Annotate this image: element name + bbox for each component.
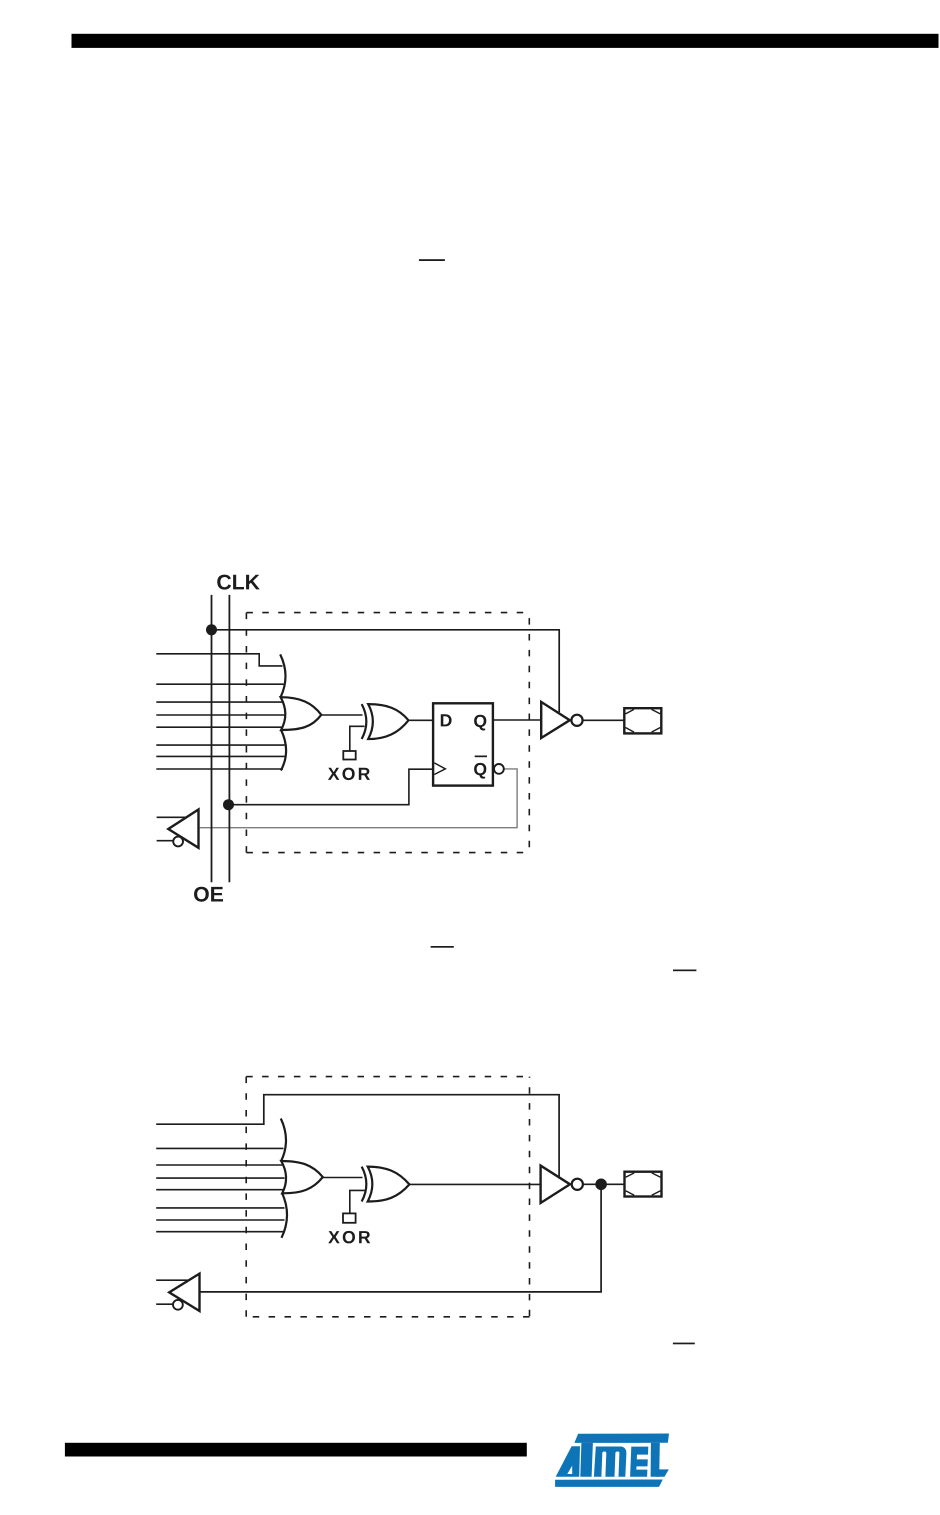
wire product term 8 bbox=[156, 1231, 283, 1233]
OR gate G2 body bbox=[281, 1161, 323, 1193]
macrocell dashed boundary box 1 bbox=[246, 613, 529, 853]
wire CLK vertical line 2 bbox=[228, 595, 230, 882]
buffer B1 inversion bubble bbox=[571, 715, 582, 726]
wire OR to XOR bbox=[321, 714, 362, 716]
wire CLK vertical line 1 bbox=[211, 595, 213, 882]
wire product term 1 (stepped) bbox=[156, 654, 282, 666]
wire product term 5 bbox=[156, 1189, 284, 1191]
XOR fuse square F2 bbox=[343, 1213, 356, 1222]
flip-flop clock triangle bbox=[434, 763, 445, 775]
XOR gate X2 body bbox=[368, 1167, 410, 1202]
wire XOR to D input bbox=[409, 719, 434, 721]
overline mark (paragraph 2) bbox=[673, 1343, 695, 1345]
wire product term 3 bbox=[156, 701, 284, 703]
pin label Q-bar overline bbox=[475, 756, 487, 758]
wire XOR fuse input bbox=[350, 726, 365, 751]
pin label Q bbox=[474, 715, 486, 731]
node output junction dot bbox=[595, 1179, 607, 1191]
wire product term 4 bbox=[156, 1177, 284, 1179]
wire clock feed to flip-flop bbox=[229, 769, 433, 805]
wire product term 6 bbox=[156, 744, 284, 746]
Atmel logo counters (white) bbox=[567, 1452, 649, 1477]
wire product term 4 bbox=[156, 714, 284, 716]
pin label D bbox=[441, 714, 452, 726]
buffer B3 inversion bubble bbox=[572, 1179, 583, 1190]
wire inverter input true bbox=[157, 816, 187, 818]
wire Q to output buffer bbox=[493, 719, 541, 721]
I/O pad P2 bbox=[625, 1172, 662, 1197]
wire inverter B4 input true bbox=[156, 1279, 188, 1281]
overline mark (figure caption 1) bbox=[431, 946, 454, 948]
wire product term 5 bbox=[156, 726, 284, 728]
OR gate G1 bottom input wing bbox=[281, 730, 286, 771]
OR gate G1 top input wing bbox=[280, 654, 285, 697]
wire product term 6 bbox=[156, 1207, 284, 1209]
label XOR (diagram 2) bbox=[328, 1231, 370, 1243]
wire product term 7 bbox=[156, 1219, 284, 1221]
I/O pad P1 bbox=[624, 708, 661, 733]
XOR fuse square F1 bbox=[343, 751, 355, 760]
wire inverter input complement bbox=[157, 840, 173, 842]
wire product term 8 bbox=[156, 768, 283, 770]
wire buffer to pad (diagram 2) bbox=[583, 1183, 624, 1185]
pin label Q-bar bbox=[474, 763, 486, 779]
label XOR (diagram 1) bbox=[328, 768, 370, 780]
wire product term 3 bbox=[156, 1164, 284, 1166]
node CLK junction dot bbox=[206, 624, 217, 635]
XOR gate X1 body bbox=[368, 704, 408, 739]
wire XOR fuse input (diagram 2) bbox=[350, 1190, 365, 1213]
overline mark (header) bbox=[419, 259, 445, 261]
Atmel logo bbox=[555, 1434, 669, 1487]
label OE bbox=[194, 887, 223, 902]
wire output feedback to inverter bbox=[200, 1184, 601, 1292]
macrocell dashed boundary box 2 bbox=[246, 1077, 529, 1317]
node OE-row junction dot bbox=[223, 799, 234, 810]
wire OR to XOR (diagram 2) bbox=[323, 1177, 363, 1179]
overline mark (paragraph) bbox=[673, 970, 696, 972]
label CLK bbox=[217, 575, 259, 590]
bottom footer rule bbox=[65, 1443, 527, 1457]
wire XOR to output buffer bbox=[409, 1183, 540, 1185]
wire inverter B4 input complement bbox=[156, 1303, 173, 1305]
wire product term 2 bbox=[156, 683, 283, 685]
tri-state output buffer B1 bbox=[541, 702, 570, 738]
wire product term 1 to tri-state enable bbox=[156, 1095, 559, 1177]
OR gate G1 body bbox=[281, 697, 322, 730]
inverter B2 bubble bbox=[173, 837, 183, 847]
XOR gate X1 leading arc bbox=[362, 704, 367, 739]
XOR gate X2 leading arc bbox=[362, 1167, 367, 1202]
wire product term 2 bbox=[156, 1147, 283, 1149]
wire CLK to tri-state enable bbox=[212, 630, 560, 713]
wire Q-bar feedback (gray) bbox=[200, 769, 517, 828]
D flip-flop U1 box bbox=[433, 703, 493, 785]
top header rule bbox=[72, 34, 939, 48]
OR gate G2 top input wing bbox=[281, 1119, 286, 1162]
wire buffer to pad bbox=[583, 719, 625, 721]
OR gate G2 bottom input wing bbox=[282, 1193, 288, 1238]
OE feedback inverter B4 bbox=[169, 1274, 199, 1311]
inverter B4 bubble bbox=[173, 1300, 183, 1310]
tri-state output buffer B3 bbox=[541, 1166, 570, 1203]
flip-flop Q-bar bubble bbox=[494, 764, 504, 774]
OE feedback inverter B2 bbox=[168, 810, 198, 848]
wire product term 7 bbox=[156, 755, 284, 757]
